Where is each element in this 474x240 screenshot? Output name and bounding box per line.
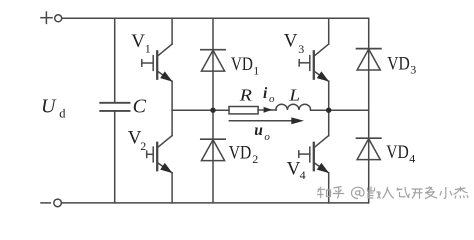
transistor V2 [153, 136, 172, 174]
diode VD2 [201, 139, 225, 160]
transistor V4 [310, 136, 329, 174]
svg-text:3: 3 [410, 63, 416, 77]
svg-text:VD: VD [386, 142, 409, 163]
svg-text:o: o [269, 93, 275, 105]
terminal + circle [55, 15, 62, 22]
node B junction dot [326, 108, 331, 113]
svg-text:4: 4 [300, 168, 306, 182]
left leg collector wire V1 [171, 18, 173, 44]
diode branch wire VD3/VD4 [368, 18, 370, 203]
transistor V3 [310, 44, 329, 82]
right leg collector wire V3 [328, 18, 330, 44]
top wire [62, 17, 369, 19]
capacitor C branch wire upper [114, 18, 116, 102]
svg-text:u: u [254, 122, 263, 139]
svg-text:o: o [264, 131, 270, 143]
bottom wire [62, 202, 369, 204]
transistor V1 [153, 44, 172, 82]
mid output wire left segment [172, 109, 229, 111]
svg-text:1: 1 [145, 42, 151, 56]
capacitor C branch wire lower [114, 112, 116, 203]
left leg mid wire (V1 emitter to V2 collector) [171, 81, 173, 135]
diode VD4 [357, 138, 381, 159]
voltage arrow u_o [229, 117, 304, 124]
svg-text:V: V [131, 31, 145, 52]
right leg emitter wire V4 [328, 173, 330, 203]
diode VD1 [201, 50, 225, 71]
svg-text:C: C [133, 96, 147, 118]
left leg emitter wire V2 [171, 173, 173, 203]
diode VD3 [357, 49, 381, 70]
svg-text:R: R [239, 85, 253, 104]
svg-text:3: 3 [298, 42, 304, 56]
svg-text:2: 2 [252, 152, 258, 166]
diode branch wire VD1/VD2 [212, 18, 214, 203]
current arrow i_o head [264, 107, 273, 113]
node A junction dot [210, 108, 215, 113]
capacitor C plates [100, 103, 129, 111]
svg-text:VD: VD [231, 54, 253, 75]
svg-text:L: L [288, 85, 300, 104]
svg-text:i: i [263, 85, 268, 102]
right leg mid wire (V3 emitter to V4 collector) [328, 81, 330, 135]
terminal + (plus sign) [41, 12, 52, 23]
svg-text:VD: VD [387, 53, 410, 74]
terminal - circle [54, 199, 62, 207]
mid output wire right segment [311, 109, 369, 111]
resistor R box [229, 107, 258, 114]
svg-text:V: V [287, 159, 301, 180]
wire resistor to inductor [258, 109, 276, 111]
terminal - (minus sign) [41, 202, 50, 204]
svg-text:V: V [284, 31, 298, 52]
svg-text:VD: VD [229, 143, 252, 164]
svg-text:d: d [59, 107, 66, 121]
svg-text:1: 1 [253, 64, 259, 78]
watermark zhihu text (drawn strokes) [317, 187, 468, 199]
svg-text:4: 4 [409, 152, 415, 166]
inductor L arcs [276, 104, 311, 110]
svg-text:2: 2 [140, 139, 146, 153]
svg-text:U: U [41, 96, 57, 118]
